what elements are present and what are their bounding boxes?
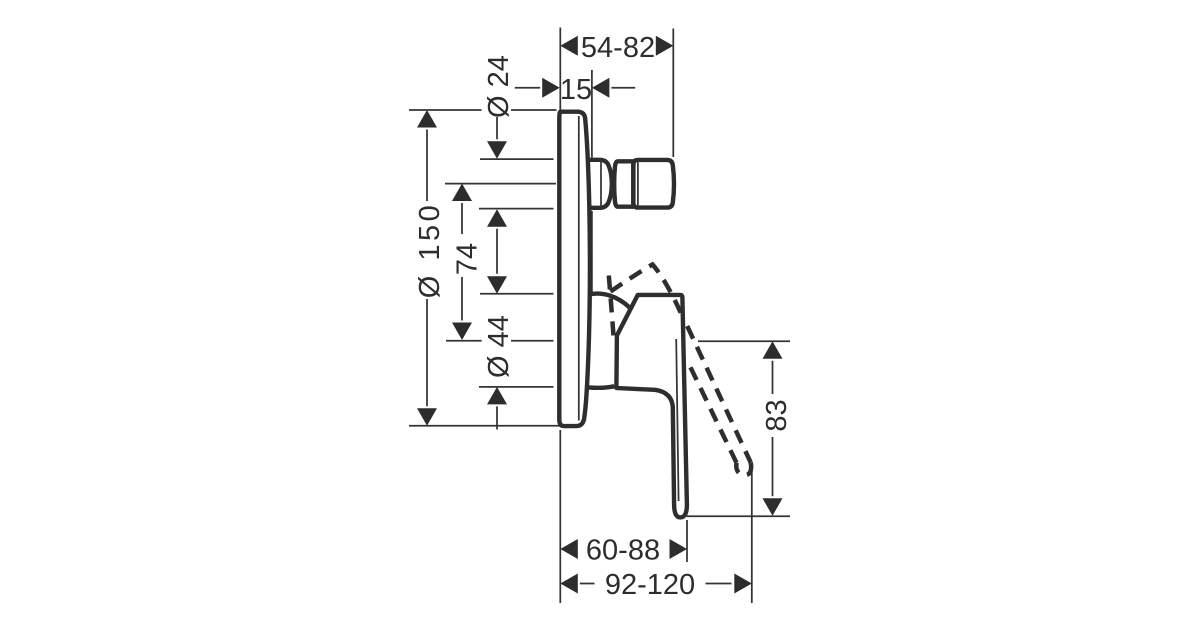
diverter knob neck: [588, 160, 675, 208]
diverter knob mid cylinder: [614, 161, 633, 206]
arrow 54-82 left: [560, 36, 578, 56]
wire extension line 60-88 right x=687: [686, 520, 688, 562]
wire extension line 92-120 right x=752: [751, 471, 753, 603]
handle hub top arc: [589, 294, 630, 308]
wire dimension stem 83 x=772.5: [772, 361, 774, 497]
wire leader 15 left: [515, 87, 540, 89]
wire extension line 83 bottom y=516: [687, 515, 791, 517]
svg-text:Ø 24: Ø 24: [483, 55, 515, 118]
knob cap inner line: [637, 161, 639, 207]
lever handle dashed blade tip: [736, 463, 751, 476]
arrow D150 top: [417, 110, 437, 128]
arrow 92-120 right: [734, 574, 752, 594]
svg-text:54-82: 54-82: [581, 32, 655, 64]
arrow 15 right: [592, 78, 610, 98]
arrow 60-88 left: [560, 539, 578, 559]
arrow 74 bottom: [452, 323, 472, 341]
knob neck inner line: [600, 161, 602, 208]
arrow 83 bottom: [763, 498, 783, 516]
arrow 60-88 right: [670, 539, 688, 559]
arrow 15 left: [542, 78, 560, 98]
wire extension line wall-plane bottom x=560: [559, 430, 561, 603]
svg-text:Ø 44: Ø 44: [483, 315, 515, 378]
wire extension line knob bottom y=208.6: [479, 208, 554, 210]
wire extension line 54-82 right x=673: [672, 29, 674, 158]
lever handle solid (down position): [616, 295, 687, 518]
wire leader 92-120 right: [706, 583, 732, 585]
faceplate inner contour line: [578, 116, 580, 421]
faceplate (escutcheon side view): [559, 112, 590, 426]
svg-text:92-120: 92-120: [605, 569, 695, 601]
wire extension line hub bottom y=387: [479, 386, 554, 388]
arrow D24 bottom: [487, 209, 507, 227]
arrow 74 top: [452, 184, 472, 202]
wire extension line hub top y=294: [480, 293, 554, 295]
wire extension line y=110 plate top: [409, 109, 557, 111]
arrow D150 bottom: [417, 408, 437, 426]
arrow D24 top: [487, 141, 507, 159]
wire dimension stem chain x=497: [496, 117, 498, 430]
wire leader 15 right: [611, 87, 635, 89]
wire dimension stem D150 x=427: [426, 130, 428, 407]
diverter knob cap: [633, 160, 674, 208]
dimension texts: [414, 32, 793, 601]
lever handle dashed hub-side edge: [609, 276, 614, 339]
arrow 92-120 left: [560, 574, 578, 594]
wire extension line wall-plane top x=560: [559, 28, 561, 111]
wire extension line plate bottom y=426: [409, 425, 564, 427]
svg-text:60-88: 60-88: [586, 534, 660, 566]
arrow D44 bottom: [487, 387, 507, 405]
lever blade inner line: [676, 339, 678, 501]
lever handle dashed (up position) top edge: [611, 265, 685, 321]
wire extension line 83 top y=341: [698, 340, 790, 342]
handle hub bottom arc: [589, 386, 615, 388]
svg-text:15: 15: [560, 74, 592, 106]
wire centerline cartridge axis y=341: [446, 340, 554, 342]
wire extension line 15 right x=592 lower: [591, 211, 593, 292]
svg-text:74: 74: [451, 243, 483, 275]
lever handle dashed blade left edge: [688, 361, 737, 463]
arrow D44 top: [487, 276, 507, 294]
lever handle dashed blade right edge: [687, 326, 751, 463]
svg-text:Ø 150: Ø 150: [414, 202, 446, 299]
wire dimension stem 74 x=462: [461, 203, 463, 321]
arrow 83 top: [763, 341, 783, 359]
arrow 54-82 right: [656, 36, 674, 56]
svg-text:83: 83: [761, 399, 793, 431]
wire centerline knob axis y=183.6: [445, 183, 556, 185]
wire extension line 15 right x=592 upper: [591, 70, 593, 158]
wire leader 92-120 left: [580, 583, 595, 585]
wire extension line knob top y=159: [480, 158, 554, 160]
